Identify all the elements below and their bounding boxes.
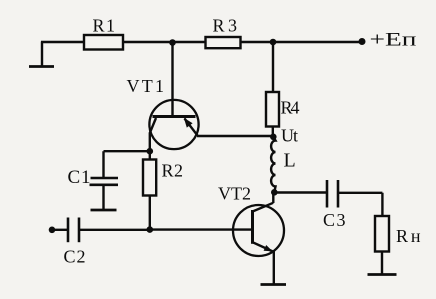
terminal input dot (49, 227, 56, 234)
wire node A down to VT1 base (171, 43, 173, 117)
resistor R2 (143, 151, 156, 229)
wire VT1 emitter to node Ut (197, 135, 273, 137)
transistor VT2 (233, 192, 284, 256)
svg-text:+Еп: +Еп (370, 29, 417, 50)
resistor R4 (266, 92, 279, 127)
svg-text:C1: C1 (68, 167, 91, 188)
svg-text:R2: R2 (162, 161, 184, 181)
ground (below Rn) (368, 273, 397, 276)
wire node B down to R4 (272, 42, 274, 92)
svg-text:VT2: VT2 (218, 184, 251, 204)
node B junction dot (270, 39, 277, 46)
wire rail left (ground to R1) (41, 41, 84, 43)
wire rail R3 to +Ep terminal (241, 41, 363, 43)
node D junction dot (147, 226, 154, 233)
resistor R3 (206, 37, 241, 48)
node A junction dot (169, 39, 176, 46)
wire node C to C1 (104, 151, 150, 177)
wire rail R1 to R3 (123, 41, 206, 43)
terminal +Ep dot (359, 38, 366, 45)
node Ut junction dot (270, 134, 277, 141)
svg-text:C3: C3 (323, 210, 346, 230)
svg-text:C2: C2 (64, 247, 86, 267)
ground (below C1) (91, 209, 117, 212)
resistor R1 (84, 35, 123, 50)
capacitor C2 (68, 218, 79, 243)
svg-text:R4: R4 (281, 98, 300, 118)
svg-text:VT1: VT1 (127, 76, 165, 96)
wire input to C2 (52, 229, 68, 231)
node C junction dot (147, 148, 154, 155)
wire node D to VT2 base (150, 228, 252, 230)
capacitor C3 (327, 180, 338, 208)
svg-text:L: L (284, 150, 296, 172)
capacitor C1 (90, 178, 119, 210)
wire VT2 emitter to ground (273, 251, 275, 284)
wire C3 to Rn (338, 193, 382, 216)
node E junction dot (271, 189, 278, 196)
ground (top left) (29, 42, 54, 67)
svg-text:Ut: Ut (281, 126, 298, 146)
wire R4 to node Ut (272, 127, 274, 137)
resistor Rn (375, 216, 389, 274)
transistor VT1 (149, 100, 198, 151)
inductor L (271, 137, 275, 193)
ground (below VT2) (261, 283, 287, 286)
svg-text:R1: R1 (93, 16, 116, 36)
wire C2 to node D (79, 229, 150, 231)
wire node E to C3 (274, 191, 327, 193)
